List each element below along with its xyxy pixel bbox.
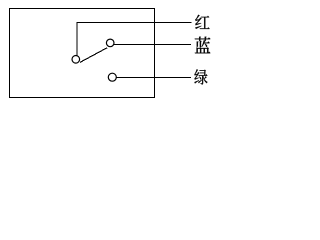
enclosure box — [10, 9, 155, 98]
wire: red lead from switch riser corner to label — [77, 23, 191, 57]
label 蓝 (blue) — [195, 37, 211, 54]
switch common contact (pivot terminal) — [72, 56, 80, 64]
wire: blue lead from contact to label — [113, 44, 191, 46]
label 绿 (green) — [194, 69, 207, 84]
wire: green lead from contact to label — [116, 77, 191, 79]
wire: switch lever (blade) — [80, 48, 107, 63]
switch contact to green wire — [108, 73, 116, 81]
label 红 (red) — [195, 15, 209, 29]
switch contact to blue wire — [106, 39, 114, 47]
